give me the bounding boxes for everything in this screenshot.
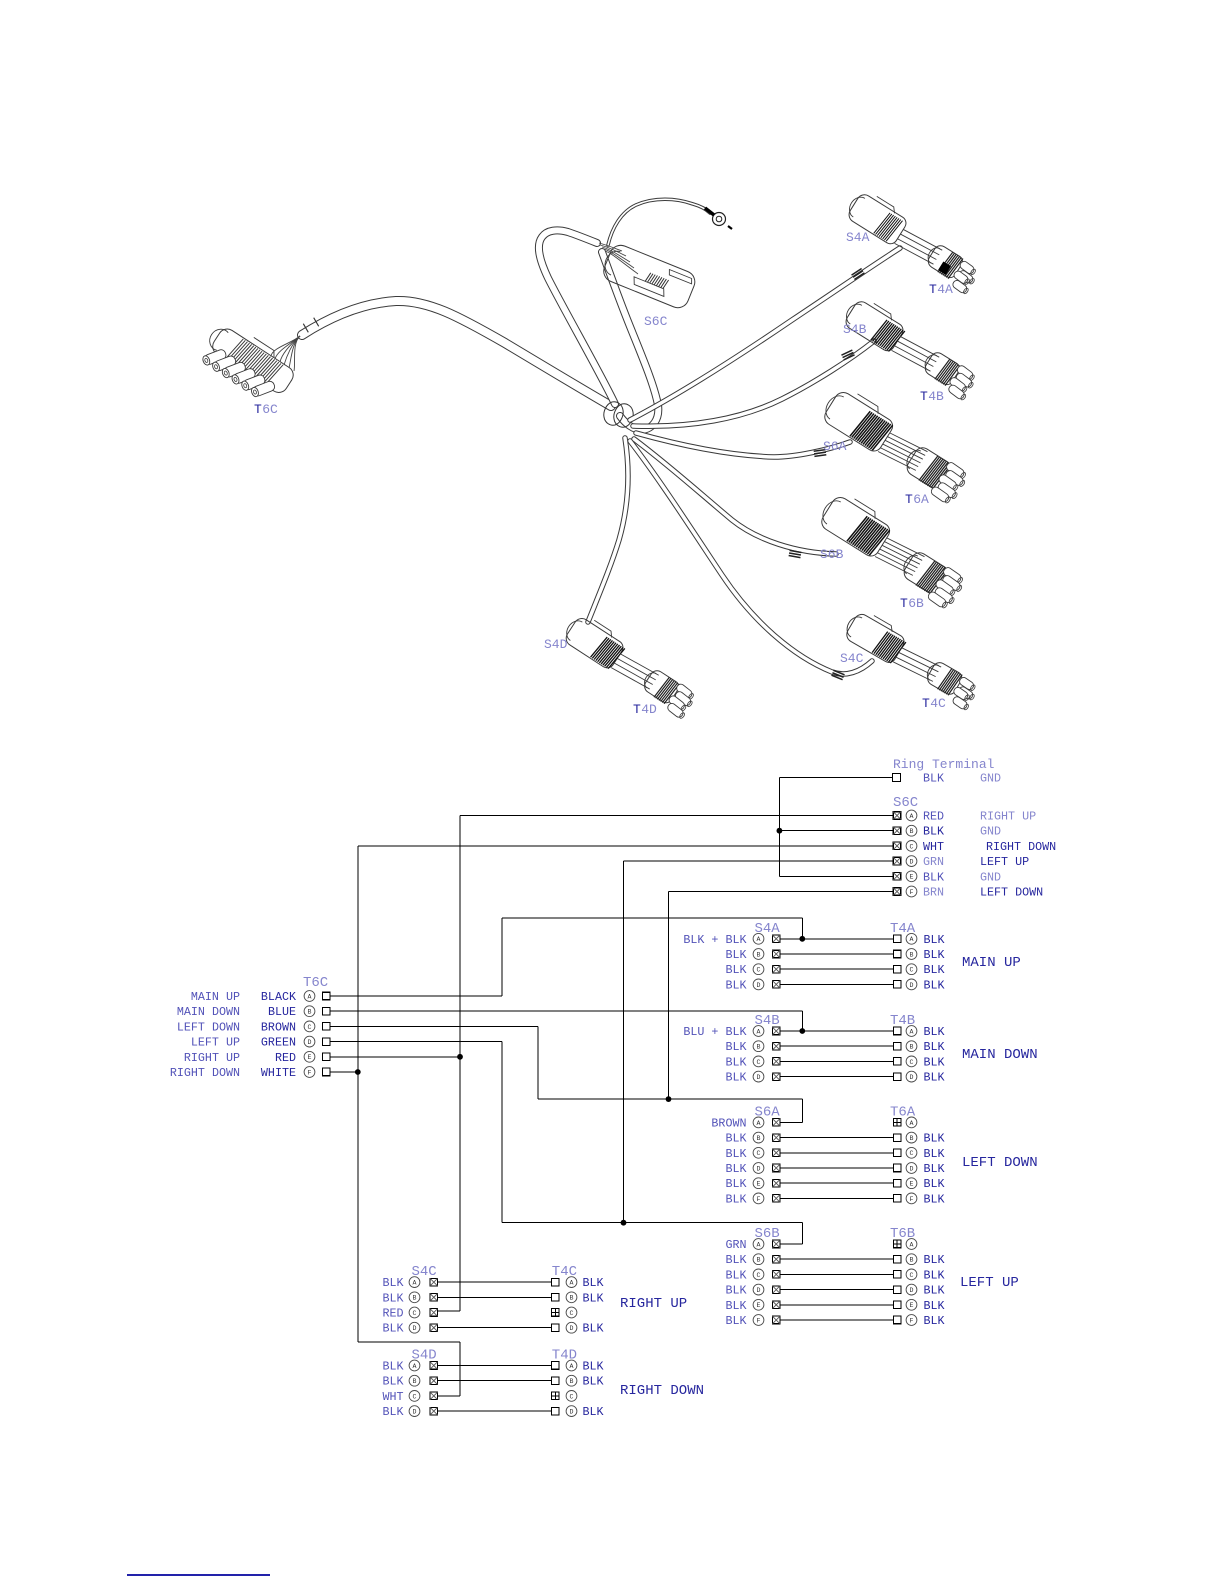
svg-text:T: T (929, 282, 937, 297)
svg-text:D: D (910, 982, 914, 989)
svg-text:A: A (308, 993, 312, 1000)
svg-text:F: F (910, 1196, 914, 1203)
svg-text:D: D (757, 1287, 761, 1294)
svg-text:BLK: BLK (924, 1268, 945, 1282)
svg-text:GRN: GRN (923, 855, 944, 869)
svg-text:S6B: S6B (755, 1226, 780, 1242)
svg-text:WHITE: WHITE (261, 1066, 296, 1080)
svg-text:B: B (910, 828, 914, 835)
svg-text:WHT: WHT (923, 840, 944, 854)
svg-text:BLK: BLK (382, 1375, 403, 1389)
svg-text:BLK: BLK (924, 1040, 945, 1054)
svg-text:B: B (757, 1257, 761, 1264)
svg-text:E: E (757, 1181, 761, 1188)
svg-text:S4A: S4A (846, 230, 870, 245)
svg-text:A: A (413, 1363, 417, 1370)
svg-text:BLK: BLK (725, 1132, 746, 1146)
svg-text:BLK: BLK (583, 1360, 604, 1374)
svg-text:BLK: BLK (923, 870, 944, 884)
svg-text:BROWN: BROWN (711, 1116, 746, 1130)
svg-text:B: B (757, 951, 761, 958)
svg-text:LEFT UP: LEFT UP (191, 1036, 240, 1050)
svg-text:T: T (905, 492, 913, 507)
svg-text:D: D (308, 1039, 312, 1046)
svg-text:6C: 6C (262, 402, 278, 417)
svg-text:GND: GND (980, 772, 1001, 786)
svg-text:BLK: BLK (583, 1375, 604, 1389)
svg-text:A: A (757, 1028, 761, 1035)
svg-text:T4D: T4D (552, 1348, 577, 1364)
svg-text:T: T (254, 402, 262, 417)
svg-text:BLK: BLK (382, 1360, 403, 1374)
svg-text:A: A (757, 1241, 761, 1248)
svg-text:GND: GND (980, 825, 1001, 839)
svg-text:D: D (757, 1074, 761, 1081)
svg-text:MAIN DOWN: MAIN DOWN (962, 1047, 1038, 1063)
svg-text:B: B (910, 1044, 914, 1051)
svg-text:BLK: BLK (725, 948, 746, 962)
svg-text:BLACK: BLACK (261, 990, 296, 1004)
svg-text:BLK: BLK (725, 1071, 746, 1085)
svg-text:A: A (570, 1363, 574, 1370)
svg-text:MAIN UP: MAIN UP (191, 990, 240, 1004)
svg-text:RIGHT DOWN: RIGHT DOWN (170, 1066, 240, 1080)
svg-text:BLK: BLK (725, 1253, 746, 1267)
svg-text:B: B (413, 1378, 417, 1385)
svg-text:C: C (308, 1024, 312, 1031)
svg-text:A: A (910, 1241, 914, 1248)
svg-text:E: E (910, 1302, 914, 1309)
svg-text:BLK: BLK (725, 1314, 746, 1328)
svg-text:S4B: S4B (843, 322, 867, 337)
svg-text:BLK: BLK (583, 1405, 604, 1419)
svg-text:T6C: T6C (303, 975, 328, 991)
svg-text:BLK: BLK (924, 1253, 945, 1267)
svg-text:BLK: BLK (382, 1322, 403, 1336)
svg-text:F: F (757, 1317, 761, 1324)
svg-text:BLK: BLK (924, 978, 945, 992)
svg-text:S6B: S6B (820, 547, 844, 562)
svg-text:S4D: S4D (412, 1348, 437, 1364)
svg-text:T: T (900, 596, 908, 611)
svg-text:BLK: BLK (725, 1055, 746, 1069)
svg-text:6A: 6A (913, 492, 929, 507)
svg-text:4D: 4D (641, 702, 657, 717)
svg-text:BLK: BLK (924, 1284, 945, 1298)
svg-text:F: F (910, 1317, 914, 1324)
svg-text:B: B (757, 1135, 761, 1142)
svg-text:BLK: BLK (924, 1132, 945, 1146)
svg-text:D: D (757, 982, 761, 989)
svg-text:BLK: BLK (725, 1147, 746, 1161)
svg-text:A: A (757, 936, 761, 943)
svg-text:D: D (570, 1325, 574, 1332)
svg-text:A: A (570, 1280, 574, 1287)
svg-text:LEFT UP: LEFT UP (980, 855, 1029, 869)
svg-text:BLK: BLK (725, 1299, 746, 1313)
svg-text:S4B: S4B (755, 1013, 780, 1029)
svg-text:GRN: GRN (725, 1238, 746, 1252)
svg-text:C: C (757, 1150, 761, 1157)
svg-text:WHT: WHT (382, 1390, 403, 1404)
svg-text:BLK: BLK (924, 1071, 945, 1085)
svg-text:C: C (910, 1150, 914, 1157)
svg-text:C: C (757, 1059, 761, 1066)
svg-text:BLK: BLK (725, 963, 746, 977)
svg-text:RIGHT DOWN: RIGHT DOWN (620, 1383, 704, 1399)
svg-text:RED: RED (275, 1051, 296, 1065)
svg-text:T4A: T4A (890, 921, 916, 937)
svg-text:B: B (910, 951, 914, 958)
svg-text:A: A (757, 1120, 761, 1127)
svg-text:BLU + BLK: BLU + BLK (683, 1025, 746, 1039)
svg-text:D: D (910, 1287, 914, 1294)
svg-text:RIGHT UP: RIGHT UP (980, 810, 1036, 824)
svg-text:GND: GND (980, 870, 1001, 884)
svg-text:MAIN DOWN: MAIN DOWN (177, 1005, 240, 1019)
svg-text:BLUE: BLUE (268, 1005, 296, 1019)
svg-text:BLK + BLK: BLK + BLK (683, 933, 746, 947)
svg-text:LEFT DOWN: LEFT DOWN (177, 1020, 240, 1034)
svg-text:BLK: BLK (923, 772, 944, 786)
svg-text:BLK: BLK (924, 948, 945, 962)
svg-text:F: F (757, 1196, 761, 1203)
svg-text:T: T (920, 389, 928, 404)
svg-text:C: C (757, 967, 761, 974)
svg-text:T6B: T6B (890, 1226, 915, 1242)
svg-text:BLK: BLK (924, 933, 945, 947)
svg-text:MAIN UP: MAIN UP (962, 955, 1021, 971)
svg-text:BLK: BLK (924, 1299, 945, 1313)
svg-text:T: T (633, 702, 641, 717)
svg-text:BLK: BLK (924, 1314, 945, 1328)
svg-text:BLK: BLK (382, 1405, 403, 1419)
svg-text:BLK: BLK (725, 1177, 746, 1191)
svg-text:D: D (570, 1409, 574, 1416)
svg-text:E: E (757, 1302, 761, 1309)
svg-text:BLK: BLK (583, 1291, 604, 1305)
svg-text:RED: RED (382, 1307, 403, 1321)
svg-text:BLK: BLK (725, 1162, 746, 1176)
svg-text:6B: 6B (908, 596, 924, 611)
svg-text:RIGHT DOWN: RIGHT DOWN (986, 840, 1056, 854)
svg-text:RED: RED (923, 810, 944, 824)
svg-text:B: B (757, 1044, 761, 1051)
svg-text:Ring Terminal: Ring Terminal (893, 757, 995, 772)
svg-text:BLK: BLK (924, 1177, 945, 1191)
svg-text:D: D (910, 859, 914, 866)
svg-text:D: D (910, 1165, 914, 1172)
svg-text:F: F (308, 1069, 312, 1076)
svg-text:BLK: BLK (725, 1284, 746, 1298)
svg-text:4B: 4B (928, 389, 944, 404)
svg-text:C: C (910, 1272, 914, 1279)
svg-text:C: C (910, 1059, 914, 1066)
svg-text:S4C: S4C (412, 1264, 437, 1280)
svg-text:C: C (910, 967, 914, 974)
svg-text:BLK: BLK (382, 1276, 403, 1290)
svg-text:C: C (910, 843, 914, 850)
svg-text:E: E (308, 1054, 312, 1061)
svg-text:BLK: BLK (924, 1025, 945, 1039)
svg-text:A: A (910, 1120, 914, 1127)
svg-text:BLK: BLK (923, 825, 944, 839)
svg-text:C: C (413, 1393, 417, 1400)
svg-text:BLK: BLK (725, 1268, 746, 1282)
svg-text:GREEN: GREEN (261, 1036, 296, 1050)
svg-text:BRN: BRN (923, 886, 944, 900)
svg-text:S6A: S6A (823, 439, 847, 454)
svg-text:BLK: BLK (924, 963, 945, 977)
svg-text:D: D (413, 1325, 417, 1332)
svg-text:B: B (910, 1257, 914, 1264)
svg-text:B: B (308, 1009, 312, 1016)
svg-text:BLK: BLK (924, 1055, 945, 1069)
svg-text:A: A (413, 1280, 417, 1287)
svg-text:RIGHT UP: RIGHT UP (620, 1296, 687, 1312)
svg-text:F: F (910, 889, 914, 896)
svg-text:T: T (922, 696, 930, 711)
svg-text:S6C: S6C (644, 314, 668, 329)
svg-text:T4B: T4B (890, 1013, 915, 1029)
svg-text:E: E (910, 874, 914, 881)
svg-text:S4D: S4D (544, 637, 568, 652)
svg-text:E: E (910, 1181, 914, 1188)
svg-text:RIGHT UP: RIGHT UP (184, 1051, 240, 1065)
svg-text:D: D (910, 1074, 914, 1081)
svg-text:T6A: T6A (890, 1104, 916, 1120)
svg-text:BLK: BLK (924, 1162, 945, 1176)
svg-text:C: C (757, 1272, 761, 1279)
svg-text:A: A (910, 1028, 914, 1035)
svg-text:BLK: BLK (725, 1192, 746, 1206)
svg-text:T4C: T4C (552, 1264, 577, 1280)
svg-text:C: C (570, 1393, 574, 1400)
svg-text:BLK: BLK (924, 1147, 945, 1161)
svg-text:BLK: BLK (725, 978, 746, 992)
svg-text:BLK: BLK (924, 1192, 945, 1206)
svg-text:BROWN: BROWN (261, 1020, 296, 1034)
svg-text:LEFT DOWN: LEFT DOWN (980, 886, 1043, 900)
svg-text:B: B (570, 1378, 574, 1385)
svg-text:D: D (757, 1165, 761, 1172)
svg-text:LEFT DOWN: LEFT DOWN (962, 1155, 1038, 1171)
svg-text:C: C (413, 1310, 417, 1317)
svg-text:S6A: S6A (755, 1104, 781, 1120)
svg-text:B: B (413, 1295, 417, 1302)
svg-text:A: A (910, 813, 914, 820)
svg-text:4A: 4A (937, 282, 953, 297)
svg-text:S4C: S4C (840, 651, 864, 666)
svg-text:B: B (910, 1135, 914, 1142)
svg-text:C: C (570, 1310, 574, 1317)
svg-text:BLK: BLK (583, 1322, 604, 1336)
svg-text:B: B (570, 1295, 574, 1302)
svg-text:A: A (910, 936, 914, 943)
svg-text:BLK: BLK (382, 1291, 403, 1305)
svg-text:D: D (413, 1409, 417, 1416)
svg-text:BLK: BLK (725, 1040, 746, 1054)
svg-text:LEFT UP: LEFT UP (960, 1275, 1019, 1291)
svg-text:S6C: S6C (893, 795, 918, 811)
svg-text:BLK: BLK (583, 1276, 604, 1290)
svg-text:4C: 4C (930, 696, 946, 711)
svg-text:S4A: S4A (755, 921, 781, 937)
